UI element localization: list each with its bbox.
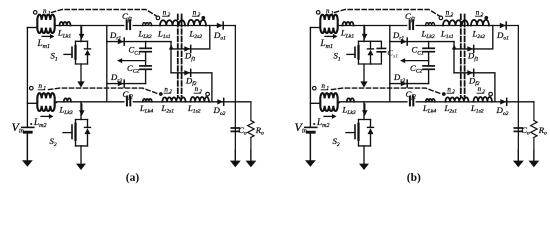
svg-text:(a): (a) — [126, 172, 140, 184]
svg-text:(b): (b) — [407, 172, 421, 184]
